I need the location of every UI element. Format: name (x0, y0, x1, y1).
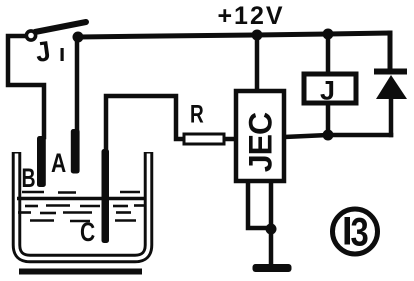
relay coil J box (304, 74, 356, 103)
junction dot rail / JEC top (252, 30, 263, 41)
liquid dashes row 2 (25, 204, 144, 207)
wire rail to relay J top (326, 34, 331, 74)
svg-text:3: 3 (351, 209, 369, 254)
svg-text:J: J (320, 76, 335, 106)
liquid dashes row 4 (30, 219, 136, 222)
beaker glass wall (17, 152, 149, 259)
svg-text:B: B (22, 163, 36, 193)
JEC control box U1 (236, 91, 284, 181)
junction dot rail / relay J top (323, 29, 334, 40)
svg-text:A: A (51, 149, 66, 179)
wire diode anode down (389, 99, 394, 135)
wire JEC bottom left pin loop (248, 181, 270, 228)
resistor R body (184, 134, 224, 144)
junction dot switch right contact (73, 32, 84, 43)
liquid dashes row 1 (22, 191, 140, 194)
svg-text:R: R (190, 100, 204, 128)
diode D1 triangle (anode) (376, 75, 407, 99)
switch J1 blade (35, 22, 86, 32)
wire right drop to diode cathode (388, 33, 393, 69)
wire switch right contact down to electrode A (75, 40, 80, 131)
figure number circle 13 (333, 209, 378, 254)
junction dot relay bottom / horizontal wire (323, 130, 334, 141)
beaker base shadow bar (19, 269, 142, 275)
svg-text:+12V: +12V (217, 2, 284, 30)
wire resistor R to JEC left pin (224, 137, 236, 142)
ground symbol (253, 264, 292, 272)
wire electrode C up and right to resistor R (106, 96, 184, 149)
junction dot JEC bottom pins join (266, 224, 277, 235)
liquid dashes row 3 (18, 211, 131, 214)
svg-text:JEC: JEC (243, 112, 279, 172)
wire JEC bottom right pin to ground (269, 181, 274, 262)
wire rail to JEC top pin (255, 35, 260, 91)
wire relay J bottom to junction (326, 103, 331, 135)
wire switch left contact to node B electrode (8, 36, 44, 137)
switch J1 open contact (26, 31, 35, 40)
svg-text:C: C (80, 218, 95, 248)
diode D1 cathode bar (374, 69, 407, 75)
electrode B (37, 136, 46, 187)
wire JEC right pin to diode anode horizontal (284, 135, 391, 137)
electrode C (102, 149, 110, 243)
liquid surface line (17, 197, 145, 200)
wire +12V top rail (80, 33, 390, 37)
electrode A (71, 129, 80, 174)
